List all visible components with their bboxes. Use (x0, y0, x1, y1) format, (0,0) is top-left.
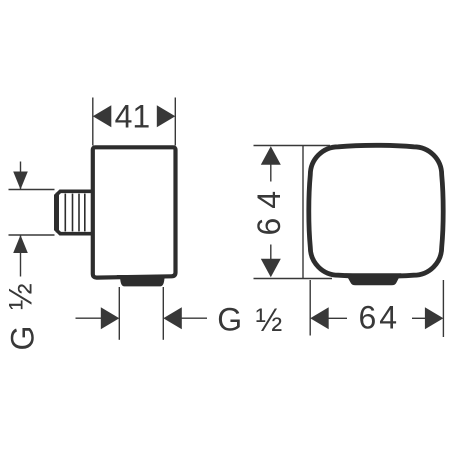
bottom dim G1/2 (left view): left extension line (118, 287, 120, 340)
left dim G1/2: upper arrowhead (down) (13, 172, 28, 190)
dim 64 vertical: lower arrowhead (down) (261, 259, 281, 278)
dim 64 horizontal: right extension line (442, 280, 444, 337)
thread nipple G1/2 (hatched) (56, 191, 93, 233)
dim 64 horizontal: right arrowhead (points right) (425, 307, 444, 329)
front view outlet stub (dark) (345, 273, 401, 285)
bottom dim G1/2: left tail line (76, 317, 102, 319)
dim 64 horizontal: right line segment (412, 317, 425, 319)
bottom outlet stub (dark) (117, 275, 166, 286)
body (side view rectangle) (93, 147, 176, 277)
svg-text:64: 64 (251, 182, 287, 236)
dim 41: left extension line (92, 98, 94, 146)
left dim G1/2: vertical dimension line lower segment (20, 235, 22, 277)
left dim G1/2: top extension line (9, 189, 55, 191)
dim 64 horizontal: left extension line (309, 280, 311, 336)
left dim G1/2: vertical dimension line upper segment (20, 162, 22, 190)
dim 64 vertical: top extension line (254, 145, 331, 147)
svg-text:½: ½ (256, 302, 283, 338)
dim 41: right arrowhead (157, 105, 176, 127)
svg-text:G: G (217, 301, 242, 337)
dim 64 vertical: bottom extension line (254, 278, 333, 280)
svg-text:G: G (4, 326, 40, 351)
dim 64 horizontal: left line segment (329, 317, 348, 319)
bottom dim G1/2 (left view): right extension line (162, 287, 164, 340)
projection line (left tangent connector) (302, 145, 304, 279)
svg-text:½: ½ (2, 283, 38, 310)
svg-text:64: 64 (359, 300, 401, 336)
bottom dim G1/2: right arrowhead (points left) (163, 307, 182, 329)
dim 41: left arrowhead (93, 105, 112, 127)
bottom dim G1/2: left arrowhead (points right) (101, 307, 120, 329)
dim 41: right extension line (174, 98, 176, 146)
left dim G1/2: lower arrowhead (up) (13, 235, 28, 253)
bottom dim G1/2: right tail line (182, 317, 208, 319)
dim 64 vertical: upper line segment (270, 160, 272, 182)
left dim G1/2: bottom extension line (9, 234, 55, 236)
front face squircle (309, 145, 443, 276)
dim 64 vertical: lower line segment (270, 245, 272, 264)
dim 64 vertical: upper arrowhead (up) (261, 146, 281, 165)
svg-text:41: 41 (115, 99, 151, 135)
dim 64 horizontal: left arrowhead (points left) (310, 307, 329, 329)
